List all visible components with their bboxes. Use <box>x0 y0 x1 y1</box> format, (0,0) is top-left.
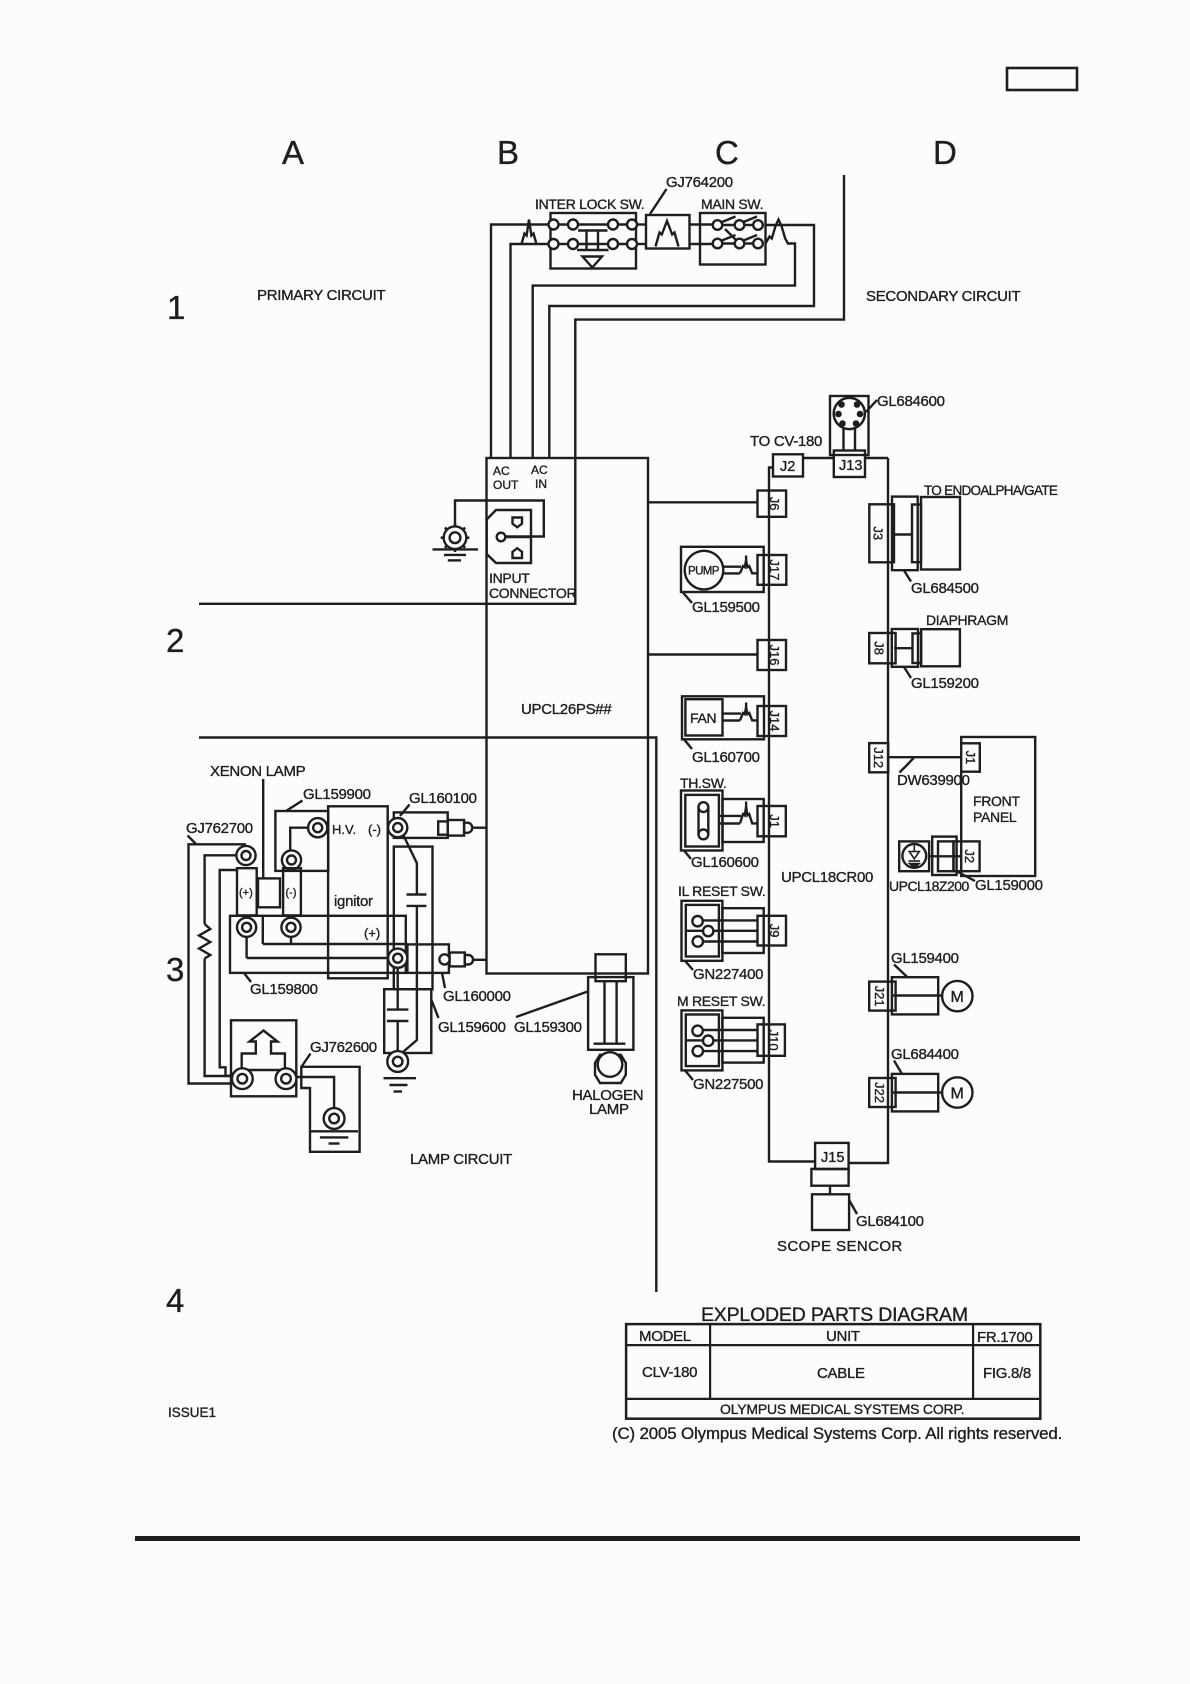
wire main sw top return (AC IN 2) <box>549 225 814 458</box>
connector J17 <box>758 555 787 585</box>
interlock switch box <box>551 213 637 269</box>
svg-text:DIAPHRAGM: DIAPHRAGM <box>926 612 1008 628</box>
wire lamp center down <box>262 916 264 944</box>
main sw contact 4 <box>713 239 723 249</box>
connector J16 <box>758 640 787 670</box>
leader GL159600 <box>432 1000 439 1018</box>
svg-text:M: M <box>951 1086 964 1103</box>
cable GL159200 divider <box>894 647 913 649</box>
svg-text:LAMP: LAMP <box>589 1101 629 1118</box>
connector J9 <box>758 916 787 946</box>
svg-text:FIG.8/8: FIG.8/8 <box>983 1365 1031 1382</box>
wire J2 to J13 <box>803 457 834 459</box>
svg-text:4: 4 <box>166 1282 184 1319</box>
svg-text:GL684500: GL684500 <box>911 580 979 597</box>
m reset cable box <box>722 1018 763 1063</box>
svg-text:(-): (-) <box>286 887 297 899</box>
wire J12 bus to front panel J1 <box>888 756 961 758</box>
ground unit bolt <box>324 1108 345 1129</box>
wire lamp feed 1 <box>189 844 247 1083</box>
svg-text:1: 1 <box>167 289 185 326</box>
lamp house box <box>231 1020 296 1096</box>
thermal switch element <box>697 807 699 834</box>
svg-text:GL159300: GL159300 <box>514 1019 582 1036</box>
m reset inner box <box>686 1015 719 1067</box>
lamp house arrow <box>242 1031 285 1071</box>
il reset mid line <box>687 930 703 932</box>
GL160100 tip <box>464 823 472 833</box>
svg-text:CLV-180: CLV-180 <box>642 1364 697 1381</box>
main sw contact 3 <box>753 220 763 230</box>
cable GL159300 lower box <box>384 989 431 1053</box>
svg-text:GJ762700: GJ762700 <box>186 820 253 837</box>
wire to GL160000 <box>263 943 408 945</box>
svg-text:TO CV-180: TO CV-180 <box>750 433 822 450</box>
connector J2 (to CV-180) <box>773 454 803 476</box>
svg-text:GJ764200: GJ764200 <box>666 174 733 191</box>
wire GL160000 to PS <box>473 959 486 961</box>
svg-text:GL159000: GL159000 <box>975 877 1043 894</box>
wire J13 to right bus <box>865 457 888 459</box>
halogen lamp outer box <box>588 977 633 1050</box>
ground bolt lamp <box>387 1051 408 1072</box>
fan connector spike <box>740 703 758 721</box>
svg-text:J6: J6 <box>767 497 782 511</box>
svg-text:2: 2 <box>166 622 184 659</box>
thermal switch inner box <box>685 795 719 847</box>
leader GN227400 <box>685 961 693 970</box>
UPCL18Z200 lamp circle <box>902 844 926 868</box>
m reset mid line <box>687 1039 703 1041</box>
connector J22 <box>869 1078 895 1107</box>
terminal bolt xenon minus top <box>282 850 301 869</box>
halogen lamp bulb <box>598 1052 623 1077</box>
svg-text:GL684400: GL684400 <box>891 1046 959 1063</box>
wire through UPCL18Z200 <box>929 855 961 857</box>
motor M2 <box>942 1077 972 1107</box>
svg-text:GL684600: GL684600 <box>877 393 945 410</box>
xenon lamp body <box>258 878 280 907</box>
svg-text:(+): (+) <box>239 887 253 899</box>
input connector pin middle <box>497 533 506 542</box>
svg-text:J14: J14 <box>767 711 782 732</box>
wire to ignitor plus <box>247 957 398 959</box>
leader GL159900 <box>286 801 303 812</box>
svg-text:M: M <box>951 989 964 1006</box>
leader GL160100 <box>400 805 410 817</box>
interlock plunger arrow <box>583 257 603 268</box>
il reset inner box <box>686 905 719 957</box>
wire J2 down to J6 <box>769 468 774 491</box>
lamp module UPCL18Z200 box <box>899 841 929 871</box>
leader GL684100 <box>849 1200 857 1214</box>
leader GL160000 <box>442 973 445 988</box>
terminal bolt HV out minus <box>388 818 407 837</box>
connector GL684600 housing <box>830 396 869 455</box>
lamp house bolt right <box>276 1068 297 1089</box>
halogen lamp inner lines <box>603 981 605 1043</box>
leader GL159000 <box>958 872 975 881</box>
scope sensor box <box>812 1194 849 1230</box>
wire J15 to scope sensor <box>829 1186 831 1195</box>
svg-text:GL160600: GL160600 <box>691 854 759 871</box>
thermal switch outer box <box>681 791 723 851</box>
m reset wires <box>703 1029 758 1031</box>
svg-text:A: A <box>282 134 304 171</box>
row divider wire 2/3 <box>199 738 656 1293</box>
svg-text:ISSUE1: ISSUE1 <box>168 1405 216 1420</box>
connector J12 <box>869 743 888 772</box>
svg-text:J21: J21 <box>872 986 887 1007</box>
svg-text:(+): (+) <box>364 926 380 941</box>
halogen lamp socket <box>596 954 626 981</box>
leader GL159500 <box>683 592 693 603</box>
connector J14 <box>758 706 787 736</box>
spike inside GJ764200 <box>656 221 679 247</box>
cable GL160000 box <box>407 944 449 973</box>
wire interlock to fuse top <box>636 223 646 225</box>
svg-text:J1: J1 <box>963 751 978 765</box>
main sw row wire top <box>718 224 759 226</box>
interlock plunger bar upper <box>578 229 608 231</box>
terminal bolt below plus <box>237 918 256 937</box>
svg-text:J2: J2 <box>962 849 977 863</box>
svg-text:J3: J3 <box>871 526 886 540</box>
GL160000 barrel <box>450 953 465 967</box>
svg-text:J16: J16 <box>767 645 782 666</box>
GL159900 inner wire <box>290 828 309 851</box>
capacitor C2 lower stem <box>397 1021 399 1051</box>
diaphragm unit box <box>921 629 960 666</box>
terminal bolt xenon plus top <box>236 846 255 865</box>
pump connector spike <box>740 556 758 574</box>
ground unit GJ762600 box <box>301 1067 359 1152</box>
svg-text:CABLE: CABLE <box>817 1365 865 1382</box>
footer rule <box>135 1536 1080 1541</box>
motor M1 <box>942 981 972 1011</box>
svg-text:TH.SW.: TH.SW. <box>680 775 726 791</box>
svg-text:(-): (-) <box>368 822 381 837</box>
ground unit ground lines <box>310 1130 358 1132</box>
leader GL684400 <box>894 1061 902 1074</box>
UPCL18Z200 mid connector inner <box>938 841 953 871</box>
svg-text:GN227500: GN227500 <box>693 1076 763 1093</box>
svg-text:GL159400: GL159400 <box>891 950 959 967</box>
svg-text:DW639900: DW639900 <box>897 772 970 789</box>
interlock contact 3 <box>608 220 618 230</box>
leader GJ762700 <box>188 836 197 845</box>
front panel box <box>961 737 1035 876</box>
svg-text:GL159500: GL159500 <box>692 599 760 616</box>
wire GL160100 to PS <box>473 827 487 829</box>
svg-text:GL159900: GL159900 <box>303 786 371 803</box>
leader GL159800 <box>244 973 251 982</box>
leader GJ762600 <box>302 1054 311 1067</box>
motor cable GL159400 mid line <box>892 994 938 996</box>
motor cable GL684400 mid line <box>892 1091 938 1093</box>
ground symbol lamp <box>384 1077 417 1079</box>
svg-text:OLYMPUS MEDICAL SYSTEMS CORP.: OLYMPUS MEDICAL SYSTEMS CORP. <box>720 1401 964 1417</box>
svg-text:MAIN SW.: MAIN SW. <box>701 196 763 212</box>
svg-text:J2: J2 <box>780 459 795 475</box>
pump circle <box>685 551 724 590</box>
il reset cable box <box>722 908 763 953</box>
leader GL684500 <box>904 571 911 582</box>
wire lamp feed 2 upper <box>205 855 237 924</box>
svg-text:OUT: OUT <box>493 478 519 492</box>
interlock contact 7 <box>608 239 618 249</box>
GL160100 ferrule <box>438 821 448 834</box>
svg-text:AC: AC <box>493 464 510 478</box>
GL160100 barrel <box>448 820 464 836</box>
GL684600 legs to J13 <box>842 429 844 451</box>
svg-text:GL684100: GL684100 <box>856 1213 924 1230</box>
svg-text:UPCL26PS##: UPCL26PS## <box>521 701 612 718</box>
m reset outer box <box>682 1010 723 1070</box>
svg-text:M RESET SW.: M RESET SW. <box>677 993 765 1009</box>
svg-text:MODEL: MODEL <box>639 1328 691 1345</box>
th.sw wires <box>719 815 741 817</box>
svg-text:B: B <box>497 134 519 171</box>
main sw row wire bottom <box>718 242 759 244</box>
ground wire loop to input connector <box>455 501 544 537</box>
main switch box <box>700 213 766 265</box>
cable GL159200 plate <box>913 633 922 663</box>
wire to motor 2 <box>938 1091 942 1093</box>
wire to motor 1 <box>938 994 942 996</box>
left bus vertical <box>769 491 815 1162</box>
svg-text:3: 3 <box>166 951 184 988</box>
wire bolt stub right <box>290 937 292 944</box>
svg-text:ignitor: ignitor <box>334 893 373 910</box>
xenon electrode block minus <box>283 868 301 915</box>
wire PS to J6 <box>648 501 758 503</box>
UPCL18Z200 mid connector outer <box>932 837 956 875</box>
svg-text:EXPLODED PARTS DIAGRAM: EXPLODED PARTS DIAGRAM <box>701 1304 968 1326</box>
resistor <box>199 924 210 959</box>
svg-text:UPCL18Z200: UPCL18Z200 <box>889 878 970 894</box>
fan inner box <box>685 699 722 735</box>
il reset contacts <box>692 916 702 926</box>
svg-text:GL159800: GL159800 <box>250 981 318 998</box>
cable GL160100 box <box>394 812 448 838</box>
leader GL159200 <box>904 667 911 678</box>
svg-text:FAN: FAN <box>690 710 716 726</box>
cable GL159600 tall box <box>394 847 433 990</box>
GL160000 tip <box>465 955 473 965</box>
interlock plunger stem right <box>597 231 599 251</box>
lamp house bolt left <box>232 1068 253 1089</box>
svg-text:J17: J17 <box>767 559 782 580</box>
svg-text:AC: AC <box>531 463 548 477</box>
svg-text:PANEL: PANEL <box>973 809 1017 825</box>
connector J6 <box>758 491 787 517</box>
main sw contact 5 <box>735 239 745 249</box>
revision box (top right, empty) <box>1007 68 1077 90</box>
xenon electrode block plus <box>237 868 257 915</box>
svg-text:GN227400: GN227400 <box>693 966 763 983</box>
wire top-left (AC OUT line 1) <box>491 225 632 459</box>
main sw contact 2 <box>735 220 745 230</box>
power supply unit UPCL26PS## <box>487 458 649 974</box>
svg-text:LAMP CIRCUIT: LAMP CIRCUIT <box>410 1151 512 1168</box>
svg-text:CONNECTOR: CONNECTOR <box>489 585 576 601</box>
connector J3 <box>869 504 894 562</box>
svg-text:INTER LOCK SW.: INTER LOCK SW. <box>535 196 644 212</box>
interlock contact 4 <box>627 220 637 230</box>
leader GL159300 <box>516 992 588 1018</box>
connector J10 <box>758 1024 785 1055</box>
GL160000 ferrule circle <box>439 954 449 964</box>
input connector plug outline <box>487 510 531 563</box>
svg-text:J12: J12 <box>871 747 886 768</box>
input connector pin top <box>513 518 523 528</box>
svg-text:C: C <box>715 134 739 171</box>
secondary feed wire <box>199 175 844 604</box>
UPCL18Z200 lamp internals <box>909 846 921 869</box>
leader GL159400 <box>894 965 908 978</box>
main sw blade 4 <box>744 235 758 241</box>
thermal switch cable box <box>723 799 764 842</box>
wire fuse to main sw top <box>690 223 718 225</box>
svg-text:FR.1700: FR.1700 <box>977 1329 1032 1346</box>
GL684600 pins <box>838 401 845 408</box>
cable GL684500 divider <box>894 533 912 535</box>
title block table <box>626 1324 1040 1419</box>
motor cable GL159400 box <box>892 977 938 1014</box>
svg-text:J22: J22 <box>872 1082 887 1103</box>
connector J15 <box>815 1143 849 1169</box>
svg-text:IL RESET SW.: IL RESET SW. <box>678 883 765 899</box>
wire lamp feed 3 <box>220 870 237 1076</box>
cable GL684500 plate <box>912 505 921 563</box>
svg-text:XENON LAMP: XENON LAMP <box>210 763 306 780</box>
terminal bolt ignitor plus <box>388 949 407 968</box>
svg-text:J8: J8 <box>872 641 887 655</box>
main sw contact 6 <box>753 239 763 249</box>
interlock plunger bar lower <box>577 249 609 251</box>
ignitor box <box>328 806 388 978</box>
pump unit box <box>681 547 764 592</box>
main sw blade 2 <box>744 217 758 223</box>
wire bolt to ground unit <box>297 1077 335 1108</box>
endo alpha/gate unit box <box>921 497 960 570</box>
connector J2 (front panel) <box>954 841 980 871</box>
terminal bolt below minus <box>281 918 300 937</box>
input connector pin bottom <box>513 548 523 558</box>
svg-text:J15: J15 <box>821 1150 844 1166</box>
svg-text:PUMP: PUMP <box>688 566 720 578</box>
svg-text:GJ762600: GJ762600 <box>310 1039 377 1056</box>
connector spike left of interlock <box>522 220 537 245</box>
protective earth lug <box>444 526 467 549</box>
leader DW639900 <box>900 758 915 773</box>
il reset wires <box>703 919 758 921</box>
svg-text:SECONDARY CIRCUIT: SECONDARY CIRCUIT <box>866 288 1021 305</box>
svg-text:J9: J9 <box>767 924 782 938</box>
leader GJ764200 <box>650 189 667 214</box>
capacitor C1 feed <box>404 836 417 895</box>
main sw link diagonal <box>725 229 736 240</box>
cable GL159200 housing <box>892 629 918 667</box>
connector J1 <box>758 806 786 836</box>
svg-text:INPUT: INPUT <box>489 570 530 586</box>
interlock contact 5 <box>549 239 559 249</box>
fan wires <box>723 712 742 714</box>
ground symbol lines <box>433 548 479 550</box>
connector GL684600 DIN circle <box>834 398 865 429</box>
connector J8 <box>869 633 895 663</box>
svg-text:UNIT: UNIT <box>826 1328 860 1345</box>
svg-text:(C) 2005 Olympus Medical Syste: (C) 2005 Olympus Medical Systems Corp. A… <box>612 1424 1062 1443</box>
right bus vertical <box>849 458 888 1163</box>
capacitor C2 <box>387 1008 409 1010</box>
leader XENON LAMP <box>262 779 264 878</box>
svg-text:J1: J1 <box>767 814 782 828</box>
interlock contact 8 <box>627 239 637 249</box>
capacitor C2 upper stem <box>397 968 399 1010</box>
J15 mating block <box>811 1169 848 1186</box>
m reset contacts <box>692 1026 702 1036</box>
cable GL159900 box <box>275 811 328 871</box>
svg-text:SCOPE SENCOR: SCOPE SENCOR <box>777 1238 903 1255</box>
fan unit box <box>682 696 764 739</box>
svg-text:PRIMARY CIRCUIT: PRIMARY CIRCUIT <box>257 287 385 304</box>
main sw contact 1 <box>713 220 723 230</box>
svg-text:H.V.: H.V. <box>332 822 356 837</box>
interlock contact 6 <box>568 239 578 249</box>
wire interlock to fuse bottom <box>636 243 646 245</box>
wire PS to J16 <box>648 653 758 655</box>
svg-text:GL160000: GL160000 <box>443 988 511 1005</box>
svg-text:TO ENDOALPHA/GATE: TO ENDOALPHA/GATE <box>924 483 1058 498</box>
halogen lamp reflector octagon <box>595 1055 626 1083</box>
svg-text:IN: IN <box>535 477 547 491</box>
leader GL684600 <box>866 400 877 412</box>
interlock plunger stem left <box>585 231 587 251</box>
connector J1 (front panel) <box>961 743 980 771</box>
capacitor C1 <box>407 893 427 895</box>
svg-text:GL159600: GL159600 <box>438 1019 506 1036</box>
leader GL160700 <box>684 739 692 749</box>
motor cable GL684400 box <box>892 1074 938 1112</box>
terminal bolt HV in <box>308 818 327 837</box>
interlock contact 1 <box>549 220 559 230</box>
wire fuse to main sw bottom <box>690 243 718 245</box>
cable GL159800 box <box>230 916 406 973</box>
main sw blade 3 <box>722 235 736 241</box>
connector spike right of main sw <box>533 220 795 459</box>
connector J13 <box>834 451 865 478</box>
svg-text:J10: J10 <box>766 1030 781 1051</box>
leader GL160600 <box>684 851 691 860</box>
wire bolt stub left <box>245 937 247 958</box>
capacitor C1 lower stem <box>403 906 417 1052</box>
svg-text:FRONT: FRONT <box>973 793 1020 809</box>
svg-text:GL160100: GL160100 <box>409 790 477 807</box>
fuse box GJ764200 <box>646 215 690 249</box>
wire bottom-left (AC OUT line 2) <box>511 244 633 458</box>
cable GL684500 housing <box>892 497 918 571</box>
connector J21 <box>869 982 895 1011</box>
th.sw connector spike <box>740 802 758 824</box>
pump wires <box>723 566 741 568</box>
svg-text:GL160700: GL160700 <box>692 749 760 766</box>
main sw blade 1 <box>722 217 736 223</box>
svg-text:D: D <box>933 134 957 171</box>
svg-text:GL159200: GL159200 <box>911 675 979 692</box>
wire lamp feed 2 lower <box>205 959 232 1077</box>
